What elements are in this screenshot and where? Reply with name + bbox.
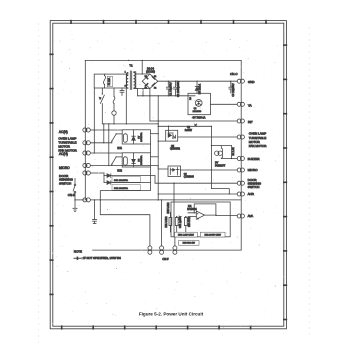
svg-text:D1-D4: D1-D4	[147, 67, 155, 70]
fuse F1 label	[107, 76, 112, 86]
wire RY2 link	[150, 144, 158, 183]
connector CN-B pin 4	[83, 163, 91, 167]
svg-text:MICRO: MICRO	[59, 166, 70, 170]
svg-text:D5 10E-1: D5 10E-1	[199, 83, 202, 94]
svg-text:R50 530 1W: R50 530 1W	[183, 243, 196, 245]
node AC(N) label	[59, 130, 68, 134]
connector CN-C label	[230, 72, 238, 76]
diode D10 label	[112, 185, 141, 191]
connector CN-B label	[68, 193, 75, 197]
wire interlock feed buses	[103, 123, 109, 165]
svg-text:C1 33µ/50V: C1 33µ/50V	[170, 82, 173, 96]
svg-text:CN-F: CN-F	[162, 257, 169, 261]
node AC(H) label	[59, 152, 68, 156]
svg-text:AVA: AVA	[248, 214, 254, 218]
svg-text:BZ 1.5k: BZ 1.5k	[233, 147, 235, 156]
svg-text:CN-B: CN-B	[68, 193, 75, 197]
diode D5 label	[199, 83, 202, 94]
wire buzzer out	[221, 146, 237, 159]
photocoupler Q6 label	[184, 173, 195, 178]
capacitor C9	[195, 124, 197, 126]
relay RY1 label	[117, 147, 122, 150]
relay RY2 label	[117, 169, 122, 172]
capacitor C3 label	[232, 83, 235, 97]
wire AHR row	[158, 193, 237, 195]
svg-text:AC(H): AC(H)	[59, 152, 68, 156]
capacitor C31 label	[180, 215, 182, 228]
capacitor C31	[175, 216, 178, 232]
svg-text:-5V 7805-1A: -5V 7805-1A	[192, 117, 206, 120]
svg-text:NOTE: NOTE	[74, 250, 82, 254]
svg-text:SWITCH: SWITCH	[59, 182, 71, 186]
capacitor C1 label	[170, 82, 173, 96]
wire Q6 drop to op-amp	[173, 183, 176, 246]
svg-text:D3: D3	[145, 88, 147, 90]
connector CN-B pin 1	[83, 128, 91, 132]
svg-text:YA: YA	[248, 104, 252, 108]
transformer T1 label	[129, 63, 133, 67]
ground door switch	[73, 200, 77, 212]
svg-text:SWITCH: SWITCH	[248, 185, 260, 189]
buzzer part label	[215, 162, 226, 168]
node INT label	[248, 120, 253, 124]
photocoupler Q5	[166, 130, 178, 141]
note text	[74, 250, 121, 261]
node AVA label	[248, 214, 254, 218]
wire fuse box left drop	[93, 88, 95, 153]
svg-text:D1: D1	[154, 76, 156, 78]
node MICRO label right	[248, 168, 259, 172]
wire T1 secondary to bridge	[134, 72, 150, 96]
svg-text:RY1: RY1	[117, 147, 122, 150]
capacitor C2 label	[177, 81, 180, 97]
wire INT row	[150, 120, 237, 122]
op-amp circuit box	[171, 202, 230, 237]
svg-text:BA10324: BA10324	[187, 208, 197, 211]
diode bridge D1-D4	[142, 74, 158, 90]
switch interlock SW1	[99, 88, 158, 124]
resistor R51 label	[166, 216, 168, 227]
wire fuse box right drop	[125, 88, 127, 124]
capacitor C4	[120, 88, 124, 96]
svg-text:R52 260kF 1/2W: R52 260kF 1/2W	[204, 234, 221, 236]
wire Q5 return	[158, 141, 166, 142]
svg-text:D2: D2	[154, 88, 156, 90]
node door sensing switch label left	[59, 174, 74, 186]
transformer T1	[125, 71, 136, 90]
connector CN-C pin 4	[237, 135, 244, 139]
svg-text:T1: T1	[129, 63, 133, 67]
svg-text:GND: GND	[248, 80, 256, 84]
resistor R50 label	[179, 241, 200, 246]
wire C9 line	[158, 126, 212, 127]
svg-text:AHR: AHR	[248, 192, 255, 196]
op-amp IC1	[188, 204, 230, 220]
svg-text:—||— : IF NOT SPECIFIED, 1/4: —||— : IF NOT SPECIFIED, 1/4W 5%	[74, 256, 121, 260]
wire RY1 out	[150, 133, 158, 135]
svg-text:3: 3	[125, 85, 126, 87]
svg-text:(DIODE): (DIODE)	[146, 71, 155, 73]
svg-text:MICRO: MICRO	[248, 168, 259, 172]
svg-text:1SS270A: 1SS270A	[140, 132, 143, 142]
wire bridge feed from top rail	[142, 60, 143, 74]
svg-text:R54 470k: R54 470k	[189, 216, 191, 227]
relay RY1 part label	[138, 132, 143, 142]
svg-text:1: 1	[125, 72, 126, 74]
fuse block box	[94, 74, 126, 88]
svg-text:AC(N): AC(N)	[59, 130, 68, 134]
resistor R51	[169, 212, 172, 232]
connector CN-B pin 2	[83, 141, 91, 145]
resistor R53 label	[175, 232, 198, 237]
connector CN-F pin 1	[148, 246, 152, 254]
svg-text:QTH4052: QTH4052	[170, 149, 181, 151]
wire interlock rail	[113, 123, 127, 124]
svg-text:1n/3kV: 1n/3kV	[185, 130, 193, 132]
thermal fuse TF1	[112, 88, 116, 124]
svg-text:C3 10µ/35V: C3 10µ/35V	[232, 83, 235, 97]
connector CN-B pin 3	[83, 151, 91, 155]
photocoupler Q5 label	[170, 146, 181, 151]
wire bridge to return rail	[143, 89, 150, 122]
capacitor C3	[229, 81, 233, 93]
wire AC(H) row	[91, 152, 123, 153]
svg-text:D92 1SS270A: D92 1SS270A	[114, 187, 128, 190]
wire CN-F2 drop	[161, 200, 163, 246]
svg-text:Figure 5-2. Power Unit Circuit: Figure 5-2. Power Unit Circuit	[139, 312, 204, 317]
connector CN-F pin 2	[160, 246, 164, 254]
connector CN-C pin 1	[237, 79, 244, 83]
fuse F1	[104, 74, 106, 88]
connector CN-C pin 3	[237, 119, 244, 123]
connector CN-C pin 9	[237, 214, 244, 218]
resistor R52 vertical label	[168, 202, 170, 213]
diode D5	[195, 81, 199, 93]
wire DC return rail	[137, 95, 195, 96]
photocoupler Q6	[168, 166, 181, 177]
wire door row to CN-C	[155, 176, 237, 184]
svg-text:C31 1µ/50V: C31 1µ/50V	[180, 215, 182, 228]
resistor R52 label	[200, 232, 225, 237]
diode bridge label	[146, 67, 155, 73]
capacitor C9 label	[185, 127, 193, 132]
buzzer BZ label	[233, 147, 235, 156]
svg-text:CN-C: CN-C	[230, 72, 238, 76]
wire buzzer feed	[211, 126, 232, 195]
wire micro out	[181, 169, 238, 171]
buzzer BZ	[215, 146, 223, 159]
connector CN-C pin 6	[237, 168, 244, 172]
wire bottom rail	[91, 199, 242, 200]
svg-text:R51 3.3kΩ: R51 3.3kΩ	[166, 216, 168, 227]
wire AC(N) row	[91, 129, 123, 130]
capacitor C30	[93, 200, 97, 224]
node GND label	[248, 80, 256, 84]
capacitor C1	[166, 81, 170, 96]
svg-text:RY2: RY2	[117, 169, 122, 172]
connector CN-C pin 7	[237, 181, 244, 185]
op-amp IC1 label	[187, 206, 197, 211]
connector CN-C pin 5	[237, 157, 244, 161]
node oven lamp label left	[58, 137, 77, 153]
connector CN-B pin 6	[83, 198, 91, 202]
svg-text:2SA1358: 2SA1358	[193, 110, 202, 113]
wire door row	[91, 172, 105, 174]
node door sensing label right	[248, 178, 262, 189]
wire micro row	[91, 165, 112, 166]
relay RY2 part label	[138, 155, 143, 165]
svg-text:INT: INT	[248, 120, 253, 124]
svg-text:R53 1.8kF 1/2W: R53 1.8kF 1/2W	[178, 234, 195, 236]
svg-text:BUZZER: BUZZER	[248, 157, 261, 161]
switch door sensing	[73, 179, 84, 201]
svg-text:1SS270A: 1SS270A	[140, 155, 143, 165]
wire micro row left join	[112, 165, 158, 167]
wire sense rail	[100, 200, 150, 246]
svg-text:D91 1SS270A: D91 1SS270A	[114, 179, 128, 182]
node YA label	[248, 104, 252, 108]
caption figure title	[139, 312, 204, 317]
wire left bus	[84, 60, 86, 200]
wire oven lamp out	[178, 136, 238, 138]
regulator Q1 box	[188, 93, 210, 114]
connector CN-F label	[162, 257, 169, 261]
regulator output label	[192, 117, 206, 120]
wire mid bus	[158, 96, 159, 200]
switch RY2 contact	[111, 156, 122, 165]
capacitor C2	[174, 81, 178, 96]
svg-text:C2 1000µ/35V: C2 1000µ/35V	[177, 81, 180, 97]
resistor R54	[184, 216, 187, 232]
node MICRO label left	[59, 166, 70, 170]
svg-text:QTH4063: QTH4063	[184, 177, 195, 179]
node BUZZER label	[248, 157, 261, 161]
svg-text:PM6207T: PM6207T	[215, 165, 226, 168]
diode D8 in RY2	[132, 159, 136, 163]
resistor R54 label	[189, 216, 191, 227]
node oven lamp label right	[249, 132, 268, 148]
wire door loop	[100, 183, 150, 200]
relay RY2	[122, 153, 150, 167]
switch RY1 contact	[111, 133, 122, 143]
connector CN-B pin 5	[83, 171, 91, 175]
relay RY1	[122, 130, 150, 144]
wire oven lamp row	[91, 142, 112, 143]
wire Q5 feed	[168, 126, 169, 131]
svg-text:R52 3.3kΩ: R52 3.3kΩ	[168, 202, 170, 213]
svg-text:D4: D4	[145, 76, 147, 78]
wire op-amp out to AVA	[230, 215, 237, 218]
svg-text:FAN MOTOR: FAN MOTOR	[249, 144, 268, 148]
connector CN-C pin 2	[237, 102, 244, 106]
wire micro to Q6	[158, 166, 168, 170]
node AHR label	[248, 192, 255, 196]
connector CN-F pin 3	[173, 246, 177, 254]
connector CN-C pin 8	[237, 192, 244, 196]
wire CN-F rail	[93, 249, 242, 251]
wire DC positive rail	[158, 81, 238, 82]
wire right bus	[240, 60, 242, 250]
wire top rail	[85, 60, 241, 61]
svg-text:F1 10A: F1 10A	[108, 77, 111, 85]
diode D7 in RY1	[132, 136, 136, 140]
wire regulator to YA	[210, 103, 237, 105]
diode D10	[104, 176, 150, 185]
diode D9	[104, 173, 155, 177]
diode D9 label	[112, 177, 141, 183]
